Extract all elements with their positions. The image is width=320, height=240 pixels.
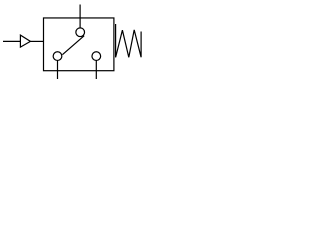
- wire left lead: [3, 40, 20, 42]
- contact circle bottom-right: [92, 52, 101, 61]
- contact circle bottom-left: [53, 52, 62, 61]
- wire triangle to box: [30, 40, 43, 42]
- contact circle top (common): [76, 28, 85, 37]
- spring return: [116, 24, 142, 57]
- wire top terminal: [79, 5, 81, 29]
- wire bottom-left terminal: [57, 61, 59, 80]
- switch lever: [62, 36, 84, 55]
- switch body box: [44, 18, 114, 71]
- actuator triangle: [20, 35, 30, 47]
- wire bottom-right terminal: [95, 61, 97, 80]
